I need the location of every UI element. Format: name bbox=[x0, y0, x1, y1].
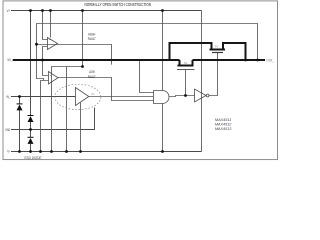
svg-text:NORMALLY OPEN SWITCH CONSTRUCT: NORMALLY OPEN SWITCH CONSTRUCTION bbox=[85, 2, 152, 7]
wire U3 output to AND middle input bbox=[89, 96, 154, 98]
wire IN to D1 bbox=[19, 97, 21, 105]
wire NO node to U1 lower input bbox=[43, 47, 48, 61]
svg-text:COM_: COM_ bbox=[266, 59, 274, 63]
border frame bbox=[3, 1, 278, 160]
junction V- / U3 supply riser bbox=[79, 150, 82, 153]
part numbers MAX4511 MAX4512 MAX4513 bbox=[215, 117, 232, 131]
wire V+ to AND gate top supply bbox=[162, 11, 164, 91]
svg-text:IN: IN bbox=[92, 92, 95, 96]
junction GND / diode column bbox=[29, 128, 32, 131]
junction COM line / P1 branch bbox=[244, 59, 247, 62]
junction V- / AND supply bbox=[161, 150, 164, 153]
svg-text:MAX4513: MAX4513 bbox=[215, 126, 232, 131]
svg-text:IN_: IN_ bbox=[6, 95, 10, 99]
thick signal path NO_ line bbox=[13, 43, 265, 66]
node GND rail bbox=[11, 108, 95, 130]
node V+ rail bbox=[11, 10, 202, 12]
junction IN_ / D1 column bbox=[18, 95, 21, 98]
node A horizontal y66 bbox=[52, 67, 83, 152]
comparator U2 LOW FAULT bbox=[49, 72, 59, 85]
svg-text:P1: P1 bbox=[215, 44, 219, 48]
node IN_ line bbox=[11, 96, 76, 98]
U2 input marker bbox=[50, 75, 51, 76]
diode D1 ESD bbox=[17, 103, 34, 143]
junction W1 riser / U1 line bbox=[35, 43, 38, 46]
wire U2 output to AND lower input bbox=[58, 78, 154, 101]
diode D3 ESD bbox=[28, 138, 34, 144]
junction V+ / U1 supply bbox=[49, 9, 52, 12]
svg-text:ESD DIODE: ESD DIODE bbox=[25, 156, 42, 160]
wire U1 output to node A bbox=[37, 45, 112, 65]
junction V+ / node A riser bbox=[81, 9, 84, 12]
transistor N1 stubs bbox=[179, 60, 181, 66]
junction V- / node A supply riser bbox=[65, 150, 68, 153]
comparator U1 HIGH FAULT bbox=[48, 38, 58, 50]
junction V+ / AND supply bbox=[161, 9, 164, 12]
svg-text:V+: V+ bbox=[7, 9, 11, 13]
svg-text:HIGH: HIGH bbox=[88, 32, 95, 36]
wire V+ to comparator U1 inverting input bbox=[43, 11, 48, 40]
wire D3 column bbox=[30, 122, 32, 137]
transistor P1 gate bar bbox=[212, 52, 223, 54]
wire D1 to V- bbox=[19, 110, 21, 151]
svg-text:FAULT: FAULT bbox=[88, 75, 97, 79]
wire NO line to AND top input bbox=[140, 61, 154, 93]
wire V+ to D2 column bbox=[30, 11, 32, 116]
wire AND output to inverter U4 bbox=[169, 96, 195, 97]
wire NO node to U2 upper input bbox=[43, 60, 49, 76]
wire buffer U3 negative supply to V- bbox=[80, 103, 82, 152]
svg-text:GND: GND bbox=[5, 128, 10, 132]
svg-text:N1: N1 bbox=[184, 61, 188, 65]
U1 input marker bbox=[49, 39, 50, 40]
wire node A to V- supply riser bbox=[66, 67, 68, 152]
svg-text:FAULT: FAULT bbox=[88, 37, 97, 41]
thick COM line bbox=[193, 59, 266, 61]
wire U4 output to P1 gate bbox=[209, 53, 218, 96]
junction V+ / D2 column bbox=[29, 9, 32, 12]
junction V+ / U1 input riser bbox=[41, 9, 44, 12]
buffer U3 level translator bbox=[76, 88, 89, 106]
AND gate U5 bbox=[154, 91, 170, 104]
wire W1 branch down to U2 bbox=[37, 44, 44, 80]
inverter U4 bbox=[195, 89, 207, 102]
wire V+ riser to node A bbox=[82, 11, 84, 67]
diode D2 ESD bbox=[28, 116, 34, 122]
node V- rail bbox=[11, 151, 202, 153]
junction COM line / sense wire W1 bbox=[256, 59, 259, 62]
wire COM sense W1 bbox=[37, 24, 258, 61]
wire V+ to V- inverter supply riser bbox=[201, 11, 203, 152]
wire AND output branch to N1 gate bbox=[185, 70, 187, 96]
junction V- / D3 column bbox=[29, 150, 32, 153]
dashed oval charge pump bbox=[55, 84, 101, 109]
P1 channel bar bbox=[210, 49, 226, 51]
svg-text:V-: V- bbox=[7, 150, 10, 154]
N1 channel bar bbox=[178, 65, 194, 67]
junction V- / U2 input riser bbox=[39, 150, 42, 153]
junction V- / U2 supply riser bbox=[50, 150, 53, 153]
node A junction dot bbox=[81, 65, 84, 68]
junction V- / D1 column bbox=[18, 150, 21, 153]
transistor N1 gate bar bbox=[177, 69, 195, 71]
wire V- to U2 lower input bbox=[41, 81, 49, 152]
junction NO_ line / comparator taps bbox=[41, 59, 44, 62]
transistor P1 branch rail bbox=[170, 43, 212, 61]
junction AND output / N1 gate branch bbox=[184, 94, 187, 97]
wire V+ to comparator U1 top supply bbox=[50, 11, 52, 38]
wire AND gate bottom supply to V- bbox=[162, 104, 164, 152]
svg-text:NO_: NO_ bbox=[8, 58, 13, 62]
svg-text:LOW: LOW bbox=[89, 70, 95, 74]
